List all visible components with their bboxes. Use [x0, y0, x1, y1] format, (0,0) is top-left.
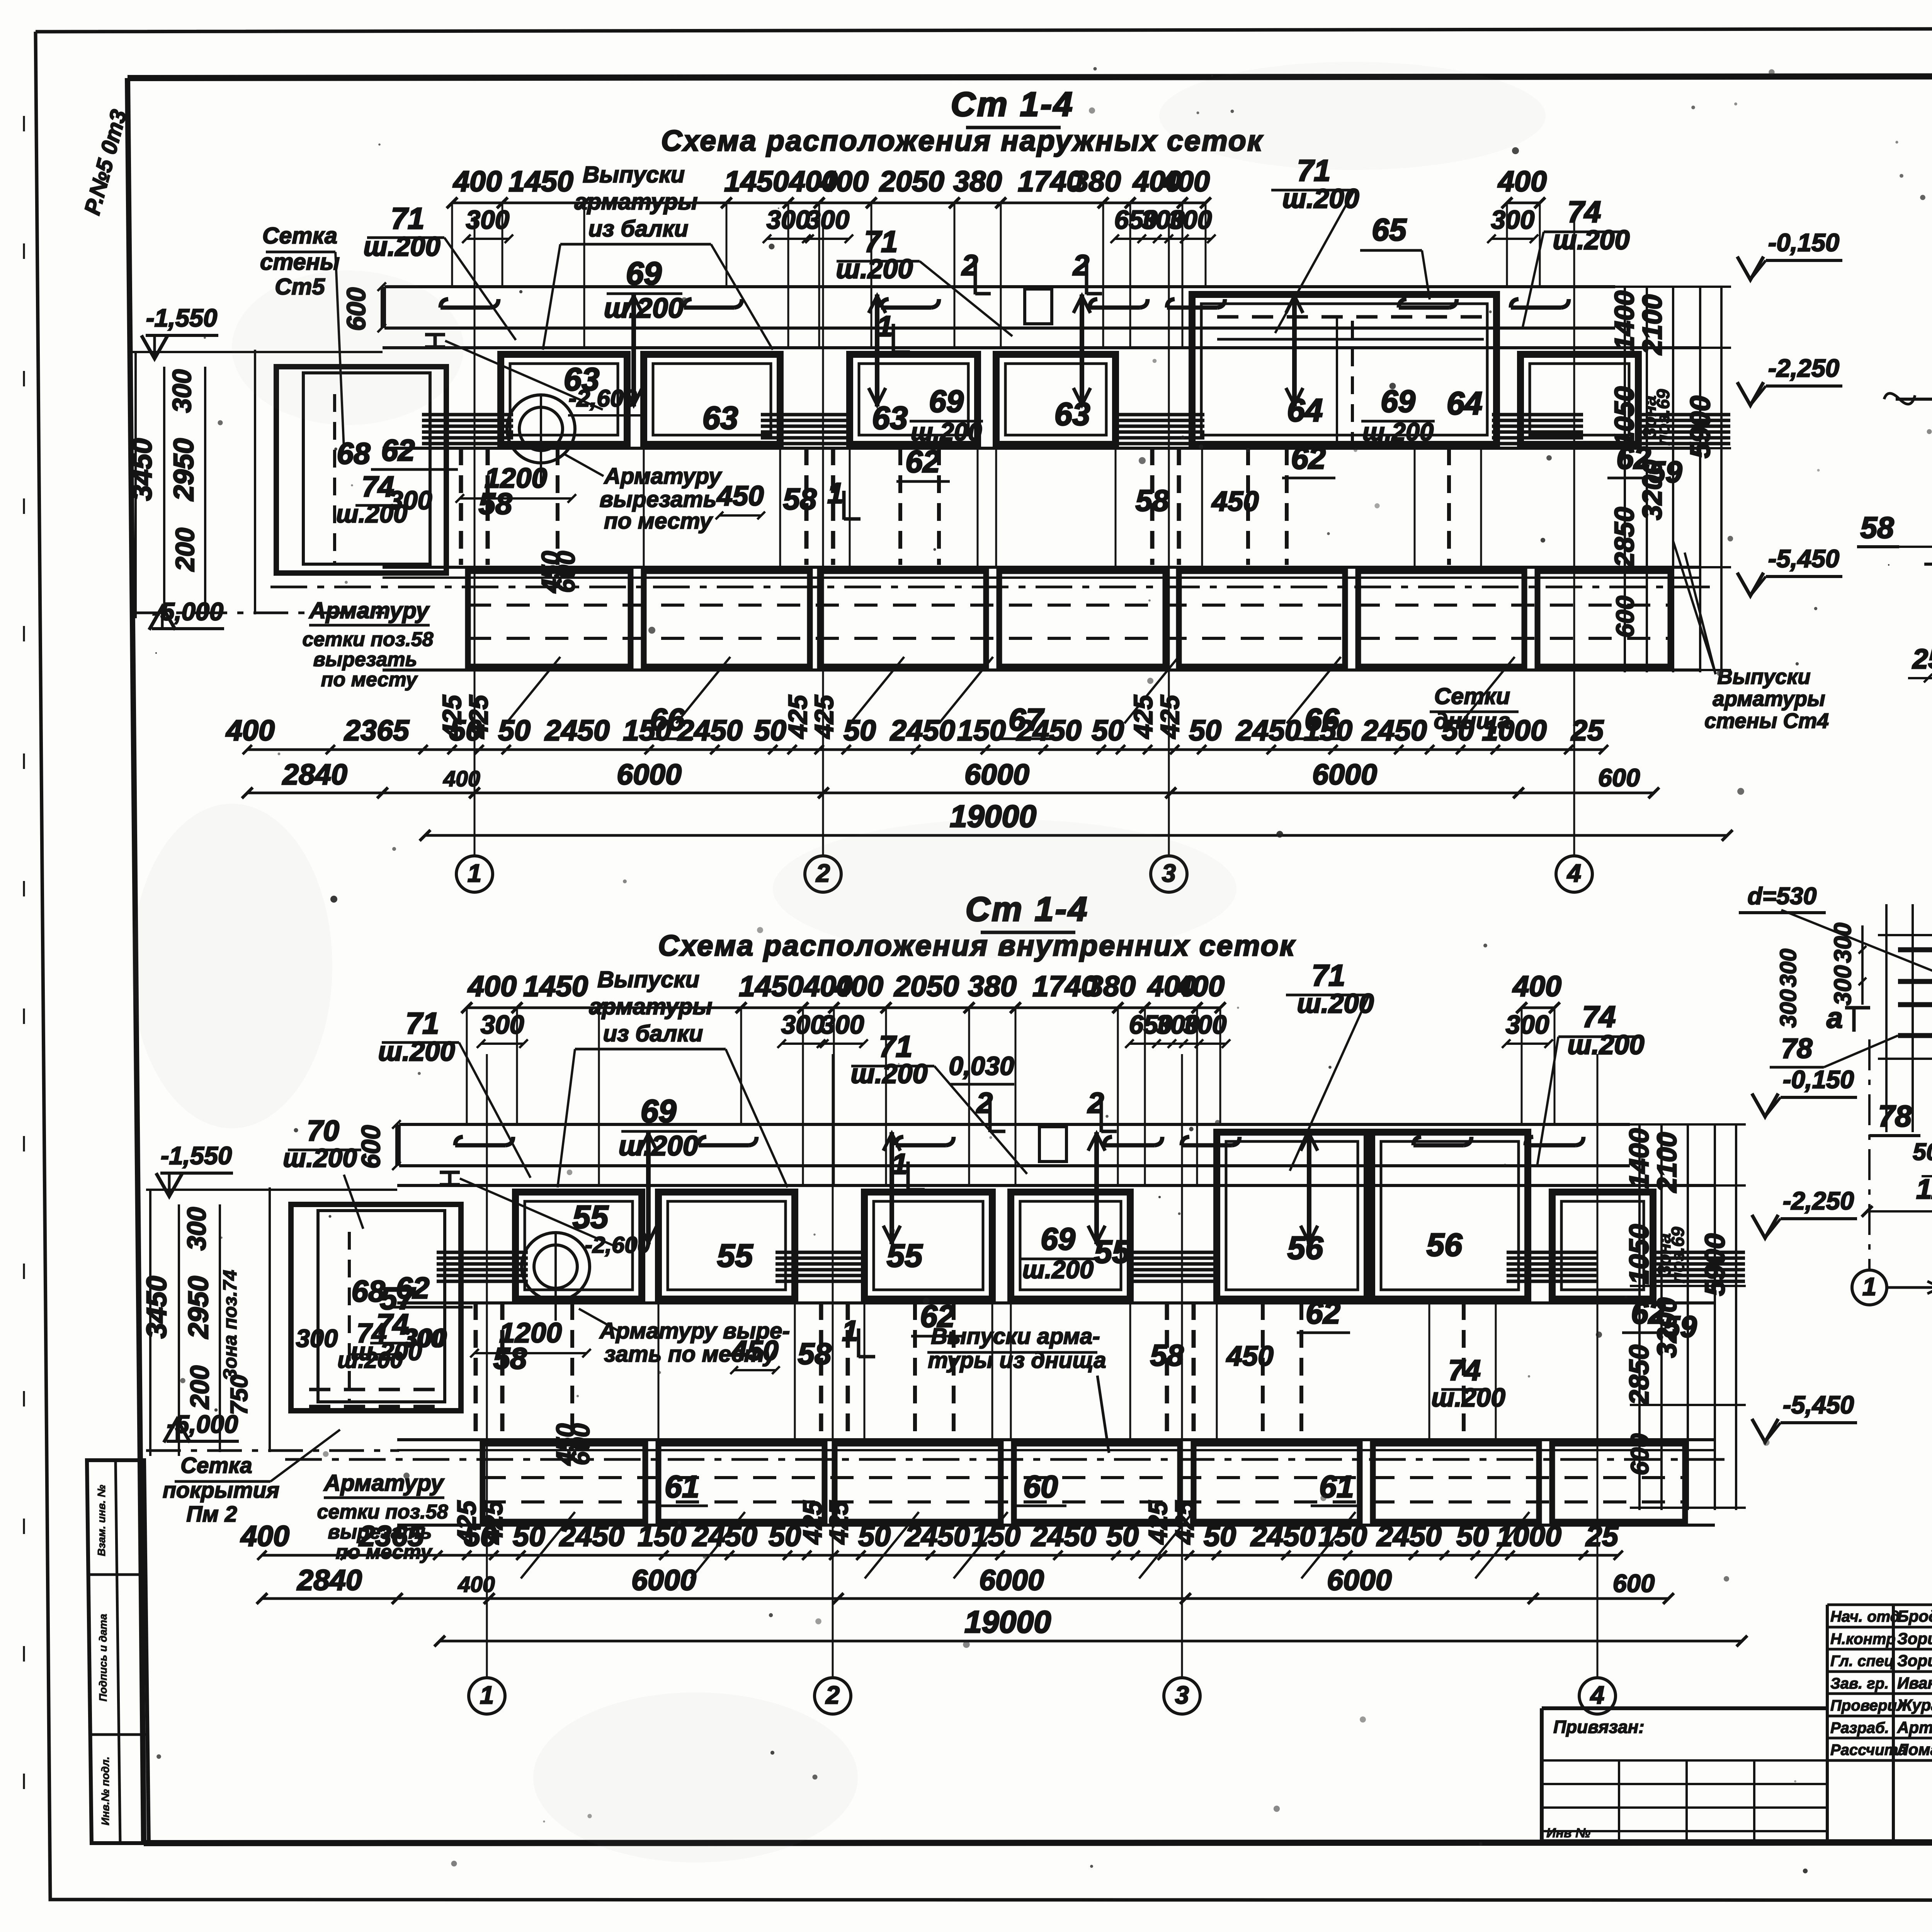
svg-text:ш.200: ш.200: [1022, 1255, 1094, 1284]
svg-text:300: 300: [1775, 949, 1801, 987]
svg-text:арматуры: арматуры: [1713, 687, 1825, 711]
svg-text:300: 300: [168, 369, 197, 413]
svg-text:50: 50: [513, 1520, 545, 1552]
svg-text:-5,450: -5,450: [1768, 544, 1839, 573]
svg-text:1: 1: [877, 310, 893, 342]
svg-text:ш.200: ш.200: [1362, 418, 1434, 446]
svg-text:74: 74: [357, 1318, 387, 1348]
svg-text:ш.200: ш.200: [1553, 224, 1629, 255]
svg-text:из балки: из балки: [588, 216, 689, 241]
svg-text:Н.контр: Н.контр: [1830, 1631, 1896, 1648]
svg-text:2450: 2450: [559, 1520, 624, 1552]
svg-text:Зорин: Зорин: [1897, 1651, 1932, 1670]
svg-text:58: 58: [798, 1337, 832, 1371]
svg-text:2450: 2450: [544, 714, 610, 747]
svg-text:380: 380: [953, 165, 1002, 197]
svg-text:1450: 1450: [523, 970, 588, 1002]
svg-text:1: 1: [842, 1315, 858, 1347]
svg-text:425: 425: [1156, 694, 1185, 739]
svg-text:2840: 2840: [282, 758, 347, 791]
svg-text:3: 3: [1175, 1681, 1189, 1709]
svg-text:-2,250: -2,250: [1783, 1187, 1854, 1215]
svg-text:2450: 2450: [889, 714, 955, 747]
svg-text:19000: 19000: [964, 1605, 1051, 1639]
svg-text:150: 150: [1304, 714, 1352, 747]
svg-text:6000: 6000: [964, 758, 1029, 791]
svg-text:300: 300: [806, 206, 850, 235]
svg-text:50: 50: [1204, 1520, 1236, 1552]
svg-text:63: 63: [1054, 396, 1090, 432]
svg-text:2100: 2100: [1651, 1132, 1682, 1193]
svg-text:2450: 2450: [1235, 714, 1301, 747]
svg-text:Пм 2: Пм 2: [186, 1502, 237, 1527]
svg-text:2450: 2450: [677, 714, 743, 747]
svg-text:25: 25: [1912, 643, 1932, 675]
svg-text:2450: 2450: [1016, 714, 1082, 747]
svg-text:71: 71: [1312, 958, 1345, 992]
svg-text:50: 50: [754, 714, 786, 747]
svg-text:6000: 6000: [979, 1564, 1044, 1596]
svg-text:арматуры: арматуры: [574, 189, 697, 214]
svg-text:сетки поз.58: сетки поз.58: [317, 1501, 448, 1523]
svg-text:2450: 2450: [692, 1520, 757, 1552]
svg-text:55: 55: [717, 1238, 753, 1274]
svg-text:200: 200: [171, 528, 200, 572]
svg-text:1450: 1450: [739, 970, 804, 1002]
svg-text:64: 64: [1447, 385, 1483, 421]
svg-text:Инв №: Инв №: [1546, 1826, 1590, 1840]
svg-text:62: 62: [1306, 1296, 1340, 1330]
svg-text:ш.200: ш.200: [911, 418, 982, 446]
svg-text:300: 300: [389, 486, 432, 515]
svg-text:50: 50: [498, 714, 531, 747]
svg-text:62: 62: [381, 433, 415, 467]
svg-text:63: 63: [702, 400, 738, 436]
svg-text:425: 425: [1170, 1500, 1199, 1545]
svg-text:600: 600: [566, 1423, 595, 1465]
svg-text:1050: 1050: [1609, 386, 1639, 447]
svg-text:71: 71: [391, 201, 425, 235]
svg-text:50: 50: [769, 1520, 801, 1552]
svg-text:400: 400: [1175, 970, 1225, 1002]
svg-text:50: 50: [844, 714, 876, 747]
svg-text:2050: 2050: [879, 165, 944, 197]
svg-text:150: 150: [957, 714, 1006, 747]
svg-text:400: 400: [225, 714, 275, 747]
svg-text:300: 300: [403, 1324, 444, 1352]
svg-text:450: 450: [716, 480, 764, 512]
svg-text:Инв.№ подл.: Инв.№ подл.: [99, 1757, 111, 1825]
svg-text:1: 1: [891, 1148, 908, 1180]
svg-text:74: 74: [1582, 1000, 1616, 1034]
svg-text:вырезать: вырезать: [328, 1521, 432, 1543]
svg-text:78: 78: [1781, 1033, 1813, 1064]
svg-text:1450: 1450: [724, 165, 789, 197]
svg-text:Выпуски: Выпуски: [597, 966, 699, 992]
svg-text:5900: 5900: [1699, 1233, 1731, 1296]
svg-text:1000: 1000: [1497, 1520, 1561, 1552]
svg-text:64: 64: [1287, 392, 1323, 428]
svg-text:-2,600: -2,600: [569, 385, 637, 412]
svg-text:600: 600: [1598, 764, 1640, 792]
svg-text:ш.200: ш.200: [337, 1347, 403, 1373]
svg-text:150: 150: [972, 1520, 1020, 1552]
svg-text:300: 300: [466, 206, 510, 235]
svg-text:400: 400: [819, 165, 869, 197]
svg-text:Подпись и дата: Подпись и дата: [97, 1614, 109, 1702]
svg-text:арматуры: арматуры: [589, 993, 712, 1019]
svg-text:Арматуру выре-: Арматуру выре-: [599, 1318, 790, 1344]
svg-text:сетки поз.58: сетки поз.58: [303, 628, 434, 651]
svg-text:1400: 1400: [1624, 1128, 1654, 1189]
svg-text:2450: 2450: [904, 1520, 970, 1552]
svg-text:425: 425: [1129, 694, 1158, 739]
svg-text:1: 1: [1862, 1272, 1876, 1301]
svg-text:4: 4: [1590, 1681, 1604, 1709]
svg-text:по месту: по месту: [604, 509, 713, 534]
svg-text:50: 50: [1189, 714, 1221, 747]
svg-text:58: 58: [493, 1341, 527, 1375]
svg-text:56: 56: [1427, 1227, 1463, 1263]
svg-text:2450: 2450: [1250, 1520, 1316, 1552]
svg-text:ш.200: ш.200: [1297, 988, 1374, 1019]
svg-text:58: 58: [783, 482, 817, 516]
svg-text:ш.200: ш.200: [836, 253, 913, 284]
svg-text:200: 200: [185, 1366, 214, 1410]
svg-text:6000: 6000: [617, 758, 682, 791]
svg-text:2: 2: [825, 1681, 840, 1709]
svg-text:58: 58: [479, 486, 512, 520]
svg-text:300: 300: [1183, 1010, 1227, 1039]
svg-text:400: 400: [240, 1520, 289, 1552]
svg-text:Зона поз.74: Зона поз.74: [219, 1270, 241, 1381]
svg-text:425: 425: [784, 694, 813, 739]
svg-text:50: 50: [1092, 714, 1124, 747]
svg-text:1000: 1000: [1482, 714, 1547, 747]
svg-text:58: 58: [1136, 483, 1169, 517]
svg-text:2840: 2840: [296, 1564, 362, 1596]
svg-text:1050: 1050: [1624, 1224, 1654, 1284]
svg-text:300: 300: [1491, 206, 1535, 235]
svg-text:-5,450: -5,450: [1783, 1391, 1854, 1419]
svg-text:Артеменко: Артеменко: [1897, 1718, 1932, 1736]
svg-text:2450: 2450: [1361, 714, 1427, 747]
svg-text:Выпуски арма-: Выпуски арма-: [931, 1324, 1100, 1349]
svg-text:2850: 2850: [1624, 1345, 1654, 1406]
svg-text:-2,600: -2,600: [585, 1232, 650, 1258]
svg-text:0,030: 0,030: [949, 1052, 1014, 1081]
svg-text:2050: 2050: [893, 970, 959, 1002]
svg-text:400: 400: [1497, 165, 1547, 197]
svg-text:Иванова: Иванова: [1897, 1674, 1932, 1692]
svg-text:d=530: d=530: [1748, 883, 1817, 910]
svg-text:3450: 3450: [126, 438, 158, 501]
svg-text:400: 400: [467, 970, 517, 1002]
svg-text:425: 425: [825, 1500, 854, 1545]
svg-text:55: 55: [573, 1199, 609, 1235]
svg-text:300: 300: [182, 1207, 211, 1251]
svg-text:ш.200: ш.200: [363, 231, 440, 262]
svg-text:300: 300: [481, 1010, 524, 1039]
svg-text:425: 425: [464, 694, 493, 739]
svg-text:300: 300: [821, 1010, 864, 1039]
svg-text:300: 300: [1168, 206, 1212, 235]
svg-text:Ст 1-4: Ст 1-4: [951, 85, 1074, 123]
svg-text:55: 55: [1094, 1234, 1131, 1270]
svg-text:из балки: из балки: [603, 1020, 703, 1046]
svg-text:4: 4: [1566, 859, 1581, 887]
svg-text:300: 300: [767, 206, 810, 235]
svg-text:1200: 1200: [1916, 1173, 1932, 1205]
svg-text:по месту: по месту: [336, 1541, 433, 1563]
svg-text:61: 61: [665, 1469, 699, 1504]
svg-text:Ломазова: Ломазова: [1896, 1740, 1932, 1759]
svg-text:зать по месту: зать по месту: [604, 1342, 777, 1367]
svg-text:Сетка: Сетка: [262, 223, 337, 248]
svg-text:50: 50: [1106, 1520, 1139, 1552]
svg-text:по месту: по месту: [321, 668, 418, 691]
svg-text:Разраб.: Разраб.: [1830, 1719, 1889, 1736]
svg-text:50: 50: [1442, 714, 1474, 747]
svg-text:300: 300: [1775, 989, 1801, 1028]
svg-text:74: 74: [1448, 1354, 1481, 1386]
svg-text:150: 150: [638, 1520, 686, 1552]
svg-text:600: 600: [1626, 1434, 1654, 1475]
svg-text:ш.200: ш.200: [1431, 1383, 1505, 1412]
svg-text:68: 68: [337, 436, 371, 470]
svg-text:ш.200: ш.200: [604, 293, 684, 324]
svg-text:6000: 6000: [1312, 758, 1377, 791]
svg-text:Арматуру: Арматуру: [323, 1470, 444, 1496]
svg-text:1400: 1400: [1609, 291, 1639, 351]
svg-text:-0,150: -0,150: [1783, 1065, 1854, 1094]
svg-text:56: 56: [1287, 1230, 1323, 1266]
svg-text:Гл. спец: Гл. спец: [1830, 1653, 1894, 1670]
svg-text:50: 50: [858, 1520, 891, 1552]
svg-text:65: 65: [1372, 213, 1407, 247]
svg-text:25: 25: [1585, 1520, 1619, 1552]
svg-text:69: 69: [929, 384, 964, 419]
svg-text:600: 600: [552, 551, 580, 593]
svg-text:69: 69: [1381, 384, 1415, 419]
svg-text:425: 425: [479, 1500, 508, 1545]
svg-text:Привязан:: Привязан:: [1553, 1717, 1645, 1737]
svg-text:600: 600: [1611, 596, 1639, 638]
svg-text:2450: 2450: [1031, 1520, 1096, 1552]
svg-text:450: 450: [1226, 1340, 1273, 1372]
svg-text:600: 600: [1613, 1569, 1655, 1597]
svg-text:300: 300: [1830, 965, 1856, 1005]
svg-text:поз.69: поз.69: [1668, 1227, 1688, 1283]
svg-text:Журавлева: Журавлева: [1896, 1696, 1932, 1714]
svg-text:Взам. инв. №: Взам. инв. №: [95, 1485, 107, 1556]
svg-text:400: 400: [452, 165, 502, 197]
svg-text:поз.69: поз.69: [1653, 389, 1673, 446]
svg-text:ш.200: ш.200: [850, 1058, 927, 1089]
svg-text:62: 62: [1291, 441, 1326, 476]
svg-text:-0,150: -0,150: [1768, 228, 1839, 257]
svg-text:50: 50: [1913, 1139, 1932, 1165]
svg-text:400: 400: [1512, 970, 1561, 1002]
svg-text:Проверил: Проверил: [1830, 1697, 1906, 1714]
svg-text:Арматуру: Арматуру: [308, 597, 430, 623]
svg-text:25: 25: [1570, 714, 1604, 747]
svg-text:Выпуски: Выпуски: [583, 162, 685, 187]
svg-text:1: 1: [480, 1681, 494, 1709]
svg-text:-2,250: -2,250: [1768, 354, 1839, 382]
svg-text:5900: 5900: [1685, 396, 1716, 458]
svg-text:стены Ст4: стены Ст4: [1704, 709, 1829, 733]
svg-text:55: 55: [887, 1238, 923, 1274]
svg-text:ш.200: ш.200: [1282, 183, 1359, 214]
svg-text:1: 1: [827, 477, 844, 509]
svg-text:3200: 3200: [1637, 460, 1667, 520]
svg-text:60: 60: [1023, 1469, 1058, 1504]
svg-text:58: 58: [1861, 510, 1894, 544]
svg-text:300: 300: [1506, 1010, 1549, 1039]
svg-text:70: 70: [307, 1114, 339, 1147]
svg-text:2850: 2850: [1609, 507, 1639, 568]
svg-text:62: 62: [905, 444, 940, 479]
svg-text:-1,550: -1,550: [146, 304, 217, 332]
svg-text:300: 300: [296, 1324, 338, 1352]
svg-text:Зав. гр.: Зав. гр.: [1830, 1675, 1889, 1692]
svg-text:1450: 1450: [509, 165, 573, 197]
svg-text:425: 425: [1144, 1500, 1173, 1545]
svg-text:3200: 3200: [1651, 1298, 1682, 1358]
svg-text:ш.200: ш.200: [1567, 1029, 1644, 1060]
svg-text:2950: 2950: [168, 438, 199, 502]
svg-text:150: 150: [1318, 1520, 1367, 1552]
svg-text:2450: 2450: [1376, 1520, 1442, 1552]
svg-text:380: 380: [1072, 165, 1121, 197]
svg-text:63: 63: [872, 400, 908, 436]
svg-text:300: 300: [1830, 923, 1856, 963]
svg-text:1: 1: [468, 859, 481, 887]
svg-text:380: 380: [1087, 970, 1136, 1002]
svg-text:ш.200: ш.200: [619, 1130, 698, 1162]
svg-text:450: 450: [1211, 486, 1259, 517]
svg-text:425: 425: [438, 694, 467, 739]
svg-text:78: 78: [1878, 1099, 1912, 1133]
svg-text:74: 74: [1568, 195, 1601, 229]
svg-text:400: 400: [834, 970, 883, 1002]
svg-text:3450: 3450: [141, 1276, 172, 1338]
svg-text:ш.200: ш.200: [283, 1144, 357, 1173]
svg-text:425: 425: [810, 694, 839, 739]
svg-text:6000: 6000: [631, 1564, 696, 1596]
svg-text:2365: 2365: [344, 714, 410, 747]
svg-text:57: 57: [380, 1281, 416, 1316]
svg-text:Нач. отд: Нач. отд: [1830, 1608, 1900, 1625]
svg-text:50: 50: [1456, 1520, 1489, 1552]
svg-text:400: 400: [457, 1572, 495, 1597]
svg-text:Зорин: Зорин: [1897, 1629, 1932, 1648]
svg-text:Сетка: Сетка: [180, 1453, 252, 1478]
svg-text:6000: 6000: [1327, 1564, 1392, 1596]
svg-text:2950: 2950: [183, 1276, 214, 1339]
svg-text:58: 58: [1150, 1338, 1184, 1372]
svg-text:425: 425: [452, 1500, 481, 1545]
svg-text:Бродский: Бродский: [1897, 1607, 1932, 1625]
svg-text:425: 425: [798, 1500, 827, 1545]
svg-text:300: 300: [781, 1010, 825, 1039]
svg-text:69: 69: [1041, 1222, 1075, 1257]
svg-text:-1,550: -1,550: [161, 1141, 232, 1170]
svg-text:2100: 2100: [1637, 294, 1667, 355]
svg-text:а: а: [1827, 1002, 1843, 1034]
svg-text:вырезать: вырезать: [313, 648, 417, 671]
svg-text:150: 150: [623, 714, 672, 747]
svg-text:Сетки: Сетки: [1434, 683, 1510, 709]
svg-text:Арматуру: Арматуру: [604, 464, 722, 489]
svg-text:400: 400: [1160, 165, 1210, 197]
svg-text:71: 71: [406, 1006, 439, 1040]
svg-text:600: 600: [357, 1125, 386, 1169]
svg-text:ш.200: ш.200: [378, 1036, 455, 1066]
svg-text:Выпуски: Выпуски: [1717, 665, 1810, 689]
svg-text:380: 380: [968, 970, 1017, 1002]
svg-text:Рассчита: Рассчита: [1830, 1742, 1906, 1759]
